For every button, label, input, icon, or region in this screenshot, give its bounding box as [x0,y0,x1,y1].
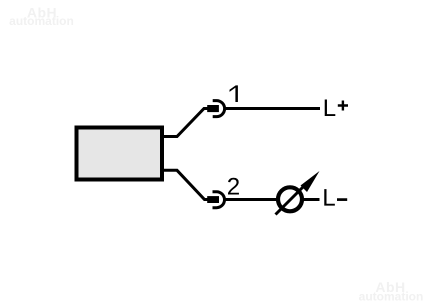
connector socket 1 (female) [213,101,225,117]
svg-text:automation: automation [9,14,74,28]
adjustment arrow shaft [276,182,309,215]
wire to L- [304,198,320,201]
connector socket 2 (female) [213,192,225,208]
sensor body (device rectangle) [77,128,163,180]
wire stub 1 from device [163,109,208,137]
watermark AbH automation top-left [9,5,74,29]
pin number 2 [228,178,239,195]
wire to L+ [226,107,321,110]
connector pin 2 (male plug) [207,196,219,203]
adjustment arrow head [301,171,320,192]
wire stub 2 from device [163,170,208,199]
adjustable load circle [278,187,302,211]
watermark AbH automation bottom-right [359,279,424,304]
wire to load [226,198,279,201]
label L- [324,189,335,206]
connector pin 1 (male plug) [207,105,219,112]
label L+ [325,99,336,116]
svg-text:automation: automation [359,290,424,304]
plus sign of L+ [338,101,348,111]
pin number 1 [230,85,238,102]
minus sign of L- [337,198,347,201]
